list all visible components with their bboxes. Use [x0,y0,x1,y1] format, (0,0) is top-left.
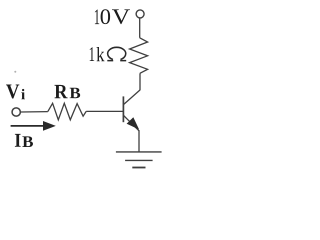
transistor Q1 base bar [122,96,124,122]
transistor Q1 collector lead [124,90,140,105]
label RB [54,85,80,98]
ground [116,151,162,153]
resistor RB [48,103,86,120]
transistor Q1 emitter arrowhead [127,118,138,129]
stray mark [14,71,16,73]
input terminal circle [12,108,20,116]
terminal (10V supply) [136,10,144,18]
label 1kΩ [90,47,126,61]
label Vi [6,85,25,100]
wire: supply terminal to resistor top [139,18,141,38]
wire: emitter to ground [138,130,140,152]
label IB [15,134,33,147]
current arrow IB [11,125,46,127]
transistor Q1 emitter lead [124,116,139,131]
wire: resistor bottom to collector elbow [139,73,141,90]
wire: input terminal to RB [21,111,48,113]
wire: RB to base bar [86,110,123,112]
label 10V [95,9,130,24]
resistor 1kΩ (collector resistor) [130,38,148,74]
